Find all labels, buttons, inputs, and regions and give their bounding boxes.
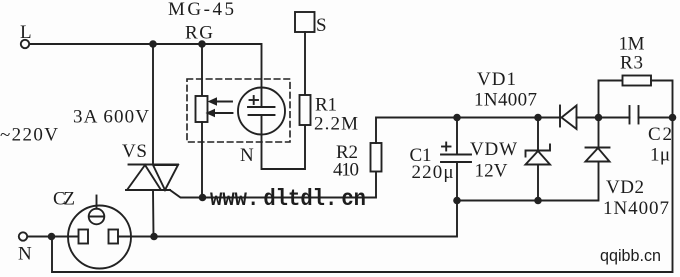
wire R3 to node D bbox=[651, 81, 673, 118]
resistor R3 body bbox=[623, 76, 652, 86]
photo tube MG-45 envelope bbox=[238, 88, 285, 135]
triac VS down-triangle bbox=[153, 165, 178, 190]
zener VDW top lead bbox=[537, 118, 539, 151]
diode VD2 cathode bar bbox=[586, 147, 610, 149]
svg-text:1μ: 1μ bbox=[650, 145, 670, 166]
svg-text:~220V: ~220V bbox=[0, 125, 58, 146]
svg-text:MG-45: MG-45 bbox=[168, 0, 234, 20]
capacitor C1 top plate bbox=[441, 154, 471, 156]
wire N to node E bbox=[28, 236, 52, 238]
svg-text:2.2M: 2.2M bbox=[314, 114, 358, 135]
socket CZ earth pin bbox=[89, 196, 105, 225]
diode VD2 triangle bbox=[586, 148, 610, 162]
svg-text:qqibb.cn: qqibb.cn bbox=[600, 247, 661, 265]
node E junction bbox=[48, 233, 56, 241]
wire VD1 to node C bbox=[577, 117, 599, 119]
node C junction bbox=[595, 114, 603, 122]
diode VD2 top lead bbox=[598, 118, 600, 148]
svg-text:1N4007: 1N4007 bbox=[474, 90, 537, 111]
zener VDW bottom lead bbox=[537, 165, 539, 201]
capacitor C1 plus mark bbox=[442, 143, 451, 151]
capacitor C1 bottom plate bbox=[441, 161, 471, 163]
capacitor C2 plates bbox=[630, 106, 639, 124]
node D junction bbox=[669, 114, 677, 122]
svg-text:1M: 1M bbox=[619, 34, 645, 55]
svg-text:R3: R3 bbox=[620, 53, 643, 74]
socket CZ left hole bbox=[79, 230, 89, 244]
svg-text:R1: R1 bbox=[315, 95, 337, 116]
svg-text:RG: RG bbox=[185, 23, 213, 44]
wire R2 to top rail bbox=[376, 118, 457, 144]
node C1-top junction bbox=[453, 114, 461, 122]
diode VD1 cathode bar bbox=[559, 106, 561, 127]
terminal N (open circle) bbox=[19, 232, 27, 240]
svg-text:12V: 12V bbox=[475, 161, 508, 182]
zener VDW triangle bbox=[526, 151, 551, 165]
svg-text:N: N bbox=[240, 145, 254, 166]
photoresistor RG body bbox=[196, 96, 208, 122]
capacitor C1 top lead bbox=[456, 118, 458, 155]
svg-text:C2: C2 bbox=[648, 124, 672, 145]
dashed enclosure MG-45 bbox=[187, 79, 290, 142]
svg-text:VS: VS bbox=[122, 141, 147, 162]
tube plus mark bbox=[250, 96, 259, 104]
svg-text:1N4007: 1N4007 bbox=[603, 198, 669, 219]
triac VS top bar bbox=[129, 164, 179, 166]
svg-text:VDW: VDW bbox=[470, 139, 517, 160]
wire node F to C1 bottom bbox=[154, 201, 457, 237]
svg-text:S: S bbox=[316, 15, 327, 36]
wire gate node to R2 bbox=[203, 172, 377, 198]
wire L to node A bbox=[30, 43, 154, 45]
node VDW-top junction bbox=[534, 114, 542, 122]
node C1-bottom junction bbox=[453, 197, 461, 205]
diode VD2 bottom lead bbox=[538, 162, 599, 201]
wire node A to node B bbox=[153, 43, 202, 45]
svg-text:CZ: CZ bbox=[53, 189, 75, 210]
svg-text:220μ: 220μ bbox=[412, 162, 454, 183]
svg-text:410: 410 bbox=[333, 160, 359, 181]
zener VDW cathode bar with wings bbox=[526, 145, 551, 157]
svg-text:N: N bbox=[18, 244, 32, 265]
capacitor C2 right lead bbox=[639, 117, 673, 119]
resistor R2 body bbox=[371, 143, 382, 172]
svg-text:VD2: VD2 bbox=[606, 177, 644, 198]
resistor R1 body bbox=[300, 95, 311, 125]
capacitor C2 left lead bbox=[599, 117, 630, 119]
light arrow 1 bbox=[208, 97, 233, 105]
gate node junction bbox=[199, 194, 207, 202]
capacitor C1 bottom lead bbox=[456, 162, 458, 201]
wire tube bottom to R1 bracket bbox=[262, 115, 306, 169]
tube top plate bbox=[248, 106, 275, 108]
diode VD1 triangle bbox=[562, 106, 577, 130]
tube bottom plate bbox=[249, 114, 275, 116]
wire RG to gate node bbox=[201, 122, 203, 198]
triac VS bottom bar bbox=[126, 189, 170, 191]
triac VS up-triangle bbox=[127, 165, 161, 190]
wire node C up to R3 branch bbox=[599, 81, 623, 118]
switch S box bbox=[295, 12, 315, 32]
wire node B down to photoresistor RG bbox=[201, 44, 203, 96]
wire triac to socket node bbox=[152, 190, 155, 237]
terminal L (open circle) bbox=[21, 40, 29, 48]
light arrow 2 bbox=[206, 109, 233, 117]
top rail segment C1 to VDW bbox=[457, 117, 538, 119]
wire node D down right edge to bottom return bbox=[52, 118, 673, 273]
wire node B to tube corner bbox=[202, 44, 262, 107]
top rail segment VDW to VD1 bbox=[538, 117, 560, 119]
svg-text:L: L bbox=[20, 22, 32, 43]
triac VS gate wire bbox=[170, 190, 203, 198]
node B junction bbox=[198, 40, 206, 48]
socket CZ body bbox=[68, 206, 131, 269]
node VDW-bottom junction bbox=[534, 197, 542, 205]
svg-text:VD1: VD1 bbox=[477, 69, 516, 90]
svg-text:3A 600V: 3A 600V bbox=[73, 107, 149, 128]
wire node E to socket bbox=[52, 236, 79, 238]
svg-text:www. dltdl. cn: www. dltdl. cn bbox=[210, 186, 366, 212]
wire socket to node F bbox=[118, 236, 154, 238]
node F junction bbox=[150, 233, 158, 241]
wire node A down to triac VS bbox=[152, 44, 154, 165]
socket CZ right hole bbox=[109, 230, 119, 244]
wire S to R1 bbox=[304, 32, 306, 95]
bottom rail C1 to VDW bbox=[457, 200, 538, 202]
node A junction bbox=[149, 40, 157, 48]
